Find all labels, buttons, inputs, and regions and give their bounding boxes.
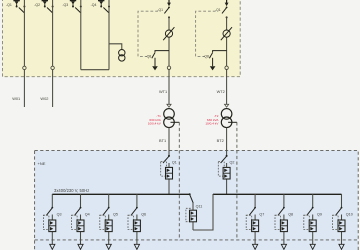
terminal bushing bay: [167, 66, 170, 69]
circuit breaker Q6 feeder: [128, 194, 146, 249]
dashed link to switchboard: [236, 122, 238, 240]
svg-text:W02: W02: [40, 96, 48, 101]
svg-text:-Q8: -Q8: [203, 54, 209, 58]
disconnector -Q3: [62, 0, 81, 13]
svg-text:-Q8: -Q8: [146, 54, 152, 58]
svg-text:10/0,4 kV: 10/0,4 kV: [205, 122, 219, 126]
svg-text:WT2: WT2: [217, 89, 225, 94]
wire from -Q3: [80, 0, 82, 70]
wire BT1 drop: [168, 128, 170, 156]
wire bay: [168, 17, 170, 105]
svg-text:BT2: BT2: [217, 138, 224, 143]
wire from -Q4: [108, 0, 110, 70]
circuit breaker Q1: [161, 155, 177, 194]
transformer value label -T1: [148, 114, 162, 126]
cable end marker: [225, 104, 229, 107]
svg-text:Q3: Q3: [57, 213, 62, 217]
bus tie breaker Q11: [186, 193, 213, 230]
svg-text:Q2: Q2: [230, 160, 235, 164]
svg-text:10/0,4 kV: 10/0,4 kV: [148, 122, 162, 126]
incoming bay enclosure (dashed): [196, 11, 216, 56]
svg-text:-Q2: -Q2: [34, 3, 40, 7]
svg-text:Q7: Q7: [259, 213, 264, 217]
transformer -T2: [221, 109, 232, 128]
wire from -Q2: [52, 0, 54, 107]
transformer value label -T2: [205, 114, 219, 126]
switchboard section boundary (dashed): [35, 239, 359, 241]
circuit breaker Q9 feeder: [304, 194, 322, 249]
circuit breaker Q2: [218, 155, 234, 194]
disconnector -Q1: [215, 7, 228, 19]
svg-text:Q11: Q11: [196, 205, 203, 209]
wire tap to auxiliary transformer: [109, 44, 122, 50]
wire BT2 drop: [226, 128, 228, 156]
busbar section 2: [213, 193, 342, 195]
circuit breaker Q5 feeder: [100, 194, 118, 249]
wire transformer tap: [228, 121, 237, 123]
svg-text:BT1: BT1: [159, 138, 166, 143]
earthing branch wire: [213, 51, 227, 53]
svg-text:+NE: +NE: [38, 161, 46, 166]
disconnector -Q1: [157, 7, 170, 19]
terminal bushing W01: [23, 66, 26, 69]
ground: [210, 66, 216, 70]
disconnector -Q2: [34, 0, 53, 13]
circuit breaker Q4 feeder: [72, 194, 90, 249]
svg-text:Q6: Q6: [141, 213, 146, 217]
terminal bushing W02: [51, 66, 54, 69]
earthing switch -Q8: [203, 53, 212, 67]
transformer -T1: [164, 109, 175, 128]
wire loop bottom: [81, 69, 109, 71]
instrument transformer with actuator slash: [221, 27, 232, 40]
cable end marker: [167, 104, 171, 107]
svg-text:W01: W01: [12, 96, 20, 101]
circuit breaker Q3 feeder: [43, 194, 61, 249]
circuit breaker Q7 feeder: [246, 194, 264, 249]
incoming bay enclosure (dashed): [138, 11, 158, 56]
disconnector -Q4: [91, 0, 110, 13]
incoming feeder arrow: [167, 0, 171, 6]
earthing switch -Q8: [146, 53, 155, 67]
svg-text:Q10: Q10: [346, 213, 353, 217]
circuit breaker Q8 feeder: [275, 194, 293, 249]
svg-text:-Q1: -Q1: [215, 8, 221, 12]
wire bay: [226, 17, 228, 105]
incoming feeder arrow: [225, 0, 229, 6]
MV switchgear enclosure (yellow): [3, 0, 241, 77]
circuit breaker Q10 feeder: [333, 194, 353, 249]
LV switchboard enclosure +NE (blue): [35, 150, 359, 250]
terminal bushing bay: [225, 66, 228, 69]
auxiliary transformer: [119, 50, 125, 62]
earthing branch wire: [155, 51, 169, 53]
dashed link to switchboard: [178, 122, 180, 240]
wire from -Q1: [23, 0, 25, 107]
svg-text:Q9: Q9: [317, 213, 322, 217]
svg-text:Q4: Q4: [85, 213, 90, 217]
svg-text:Q5: Q5: [113, 213, 118, 217]
svg-text:3x400/230 V, 50Hz: 3x400/230 V, 50Hz: [54, 188, 89, 193]
wire transformer tap: [171, 121, 180, 123]
instrument transformer with actuator slash: [163, 27, 174, 40]
busbar section 1: [52, 193, 190, 195]
ground: [152, 66, 158, 70]
svg-text:Q1: Q1: [172, 160, 177, 164]
svg-text:Q8: Q8: [288, 213, 293, 217]
disconnector -Q1: [6, 0, 25, 13]
svg-text:-Q1: -Q1: [6, 3, 12, 7]
svg-text:-Q3: -Q3: [62, 3, 68, 7]
svg-text:WT1: WT1: [159, 89, 167, 94]
svg-text:-Q1: -Q1: [157, 8, 163, 12]
svg-text:-Q4: -Q4: [91, 3, 97, 7]
